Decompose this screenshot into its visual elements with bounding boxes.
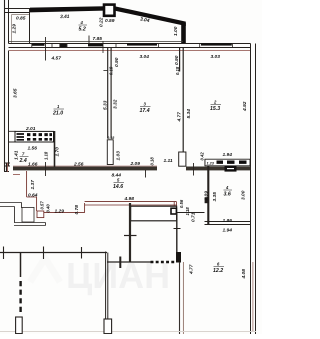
svg-text:3.41: 3.41 (60, 14, 70, 20)
room7 west wall red (182, 262, 184, 334)
tick room7 (119, 257, 121, 269)
svg-text:21.0: 21.0 (52, 111, 63, 117)
wall balcony corner vertical (181, 23, 186, 43)
svg-text:14.6: 14.6 (113, 184, 123, 190)
room1 label (52, 104, 64, 117)
sink block (225, 166, 237, 172)
bathroom bottom wall double (205, 222, 251, 225)
wall lower-left vertical (129, 203, 131, 262)
svg-text:4.57: 4.57 (51, 56, 62, 62)
svg-text:15.3: 15.3 (210, 106, 220, 112)
balcony floor line (9, 40, 183, 42)
red wall vertical right of niche (174, 202, 176, 214)
svg-text:1.86: 1.86 (223, 218, 233, 224)
tick wall right of niche (174, 228, 181, 230)
wall bottom of rooms right part (186, 167, 251, 171)
bathroom left wall double (204, 159, 206, 166)
svg-text:1.11: 1.11 (164, 158, 173, 164)
svg-text:0.78: 0.78 (74, 205, 80, 215)
svg-text:2.09: 2.09 (130, 161, 141, 167)
wall stub corridor-bath (205, 197, 209, 203)
room closet label (19, 152, 29, 165)
dimension tick 4.57 (45, 37, 47, 61)
room balcony label (79, 20, 88, 33)
wardrobe squares row1 (27, 133, 52, 136)
column top (104, 5, 115, 16)
wall right outer (255, 44, 257, 335)
bottom faint line (0, 331, 256, 333)
rail ticks (4, 247, 82, 260)
svg-text:1.94: 1.94 (223, 228, 233, 234)
svg-text:1.29: 1.29 (55, 208, 65, 214)
svg-text:1.29: 1.29 (12, 24, 18, 34)
tick door right (193, 163, 195, 176)
corridor label (113, 178, 124, 191)
room right label (210, 100, 221, 113)
red wall corridor south double (85, 202, 177, 205)
svg-text:1.18: 1.18 (185, 207, 190, 216)
wall bottom of rooms left part (13, 167, 157, 171)
svg-text:0.64: 0.64 (28, 193, 38, 199)
svg-text:3.35: 3.35 (212, 192, 218, 202)
wardrobe left cell bars (17, 134, 25, 140)
wall balcony divider (29, 9, 31, 44)
red line hall bottom 1.29 (44, 203, 85, 213)
svg-text:1.18: 1.18 (44, 151, 49, 160)
dashed left boundary (20, 253, 22, 278)
duct square black (171, 208, 176, 214)
svg-text:2.09: 2.09 (204, 191, 210, 202)
svg-text:1.00: 1.00 (173, 26, 179, 36)
tick 1.66/2.56 (45, 162, 47, 176)
window sill bar 2b (88, 44, 103, 47)
svg-text:2.56: 2.56 (73, 162, 84, 168)
svg-text:0.71: 0.71 (191, 212, 197, 222)
sink notch (227, 168, 234, 170)
wall top-left horizontal (4, 9, 30, 13)
svg-text:1.94: 1.94 (223, 152, 233, 158)
svg-text:4.08: 4.08 (241, 269, 247, 280)
svg-text:2.01: 2.01 (25, 126, 36, 132)
wall rooms 3-right (180, 48, 184, 153)
wall balcony thick slanted (115, 6, 186, 26)
door leaf room right (179, 152, 186, 166)
svg-text:0.18: 0.18 (175, 66, 180, 75)
entry door leaf (22, 207, 34, 222)
terrace post bottom (104, 319, 112, 334)
svg-text:4.77: 4.77 (188, 264, 194, 275)
post left bottom (16, 317, 23, 334)
svg-text:4.77: 4.77 (177, 112, 183, 123)
tick 8.44 (145, 170, 147, 178)
svg-text:3.03: 3.03 (211, 54, 221, 60)
svg-text:0.18: 0.18 (150, 157, 155, 166)
dashed left boundary dashes (19, 281, 21, 315)
svg-text:0.18: 0.18 (107, 136, 114, 140)
wall right of niche lower (176, 213, 178, 252)
svg-text:3.65: 3.65 (13, 88, 19, 98)
svg-text:12.2: 12.2 (213, 268, 223, 274)
closet top lines to wall (9, 131, 16, 142)
window sill bar 1 (32, 43, 45, 46)
room terrace label (213, 262, 224, 275)
svg-text:1.23: 1.23 (207, 161, 215, 165)
svg-text:0.85: 0.85 (16, 16, 26, 22)
right wall red inner face (252, 262, 254, 331)
wall block terrace corner (176, 252, 181, 263)
svg-text:0.90: 0.90 (114, 57, 120, 67)
wall left inner (8, 0, 10, 167)
room7 top line (107, 261, 154, 263)
wall right inner (250, 44, 252, 335)
svg-text:5.34: 5.34 (186, 109, 192, 119)
svg-text:1.03: 1.03 (116, 151, 122, 161)
red line hall left 1.37 (27, 171, 37, 211)
svg-text:3.04: 3.04 (140, 54, 150, 60)
wall rooms 1-3 (108, 48, 111, 139)
window band bottom line (9, 47, 251, 49)
wardrobe squares row2 (27, 138, 52, 141)
fixtures blocks (217, 160, 247, 163)
svg-text:0.22: 0.22 (99, 17, 105, 27)
window sill bar 4 (201, 43, 232, 46)
red step closet bottom (13, 174, 20, 176)
svg-text:1.56: 1.56 (28, 146, 38, 152)
svg-text:17.4: 17.4 (140, 108, 150, 114)
svg-text:ЦИАН: ЦИАН (66, 255, 170, 296)
svg-text:1.66: 1.66 (28, 162, 38, 168)
window band red inner line (9, 50, 250, 52)
window mullions (32, 41, 233, 53)
svg-text:1.37: 1.37 (30, 180, 36, 190)
svg-text:0.18: 0.18 (109, 66, 114, 75)
svg-text:5.33: 5.33 (103, 100, 109, 110)
svg-text:0.57: 0.57 (40, 201, 45, 210)
closet right wall (54, 131, 56, 167)
wall bottom closet stub (4, 163, 10, 166)
dimension tick 7.85 right (88, 36, 90, 45)
entry wall verticals (15, 203, 22, 223)
room7 west wall dark (179, 262, 181, 334)
wardrobe outline (15, 131, 54, 142)
fixtures band outline (205, 159, 250, 166)
wall balcony thick top (30, 6, 105, 12)
svg-text:1.70: 1.70 (55, 147, 61, 157)
tick lower wall (124, 235, 137, 237)
wall left outer (4, 0, 6, 171)
svg-text:3.6: 3.6 (224, 192, 231, 198)
terrace wall vertical double (106, 252, 108, 320)
svg-text:4.98: 4.98 (124, 196, 135, 202)
entry wall bottom double (14, 223, 46, 226)
terrace rail (0, 252, 107, 254)
tick small rooms1-3 (103, 70, 107, 72)
door leaf room3 (107, 140, 113, 165)
wall left step bottom (4, 164, 9, 172)
window sill bar 2 (60, 44, 67, 47)
svg-text:7.85: 7.85 (93, 36, 103, 42)
wall top-left inner faces (12, 15, 30, 43)
svg-text:0.56: 0.56 (179, 199, 184, 208)
window band top line (9, 43, 251, 45)
room bath label (224, 185, 233, 198)
watermark (30, 255, 170, 296)
entry wall top double (0, 203, 22, 207)
window sill bar 3 (127, 43, 157, 46)
svg-text:3.32: 3.32 (113, 99, 119, 109)
svg-text:2.4: 2.4 (19, 158, 27, 164)
svg-text:0.59: 0.59 (105, 18, 115, 24)
room7 top dotted (151, 261, 177, 264)
svg-text:0.90: 0.90 (174, 55, 180, 65)
svg-text:3.00: 3.00 (241, 190, 247, 200)
svg-text:0.40: 0.40 (46, 204, 51, 213)
red wall face closet left (7, 163, 9, 172)
svg-text:4.92: 4.92 (242, 101, 248, 112)
svg-text:0.42: 0.42 (199, 152, 204, 161)
red duct square hall (37, 211, 44, 218)
niche box (131, 206, 177, 221)
svg-text:5.2: 5.2 (79, 27, 86, 33)
room3 label (140, 102, 151, 115)
line hall to bath 0.71 (177, 212, 205, 214)
